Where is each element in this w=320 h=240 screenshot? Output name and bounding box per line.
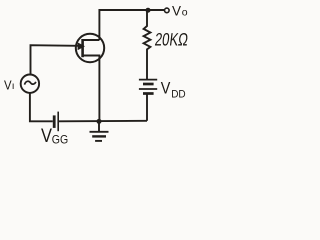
svg-text:20KΩ: 20KΩ [154,29,189,49]
svg-text:ı: ı [12,81,15,92]
svg-text:V: V [161,78,171,97]
svg-text:V: V [41,126,52,147]
svg-text:V: V [172,3,181,18]
svg-text:DD: DD [171,88,186,100]
svg-text:GG: GG [52,133,68,147]
svg-text:o: o [182,7,188,19]
